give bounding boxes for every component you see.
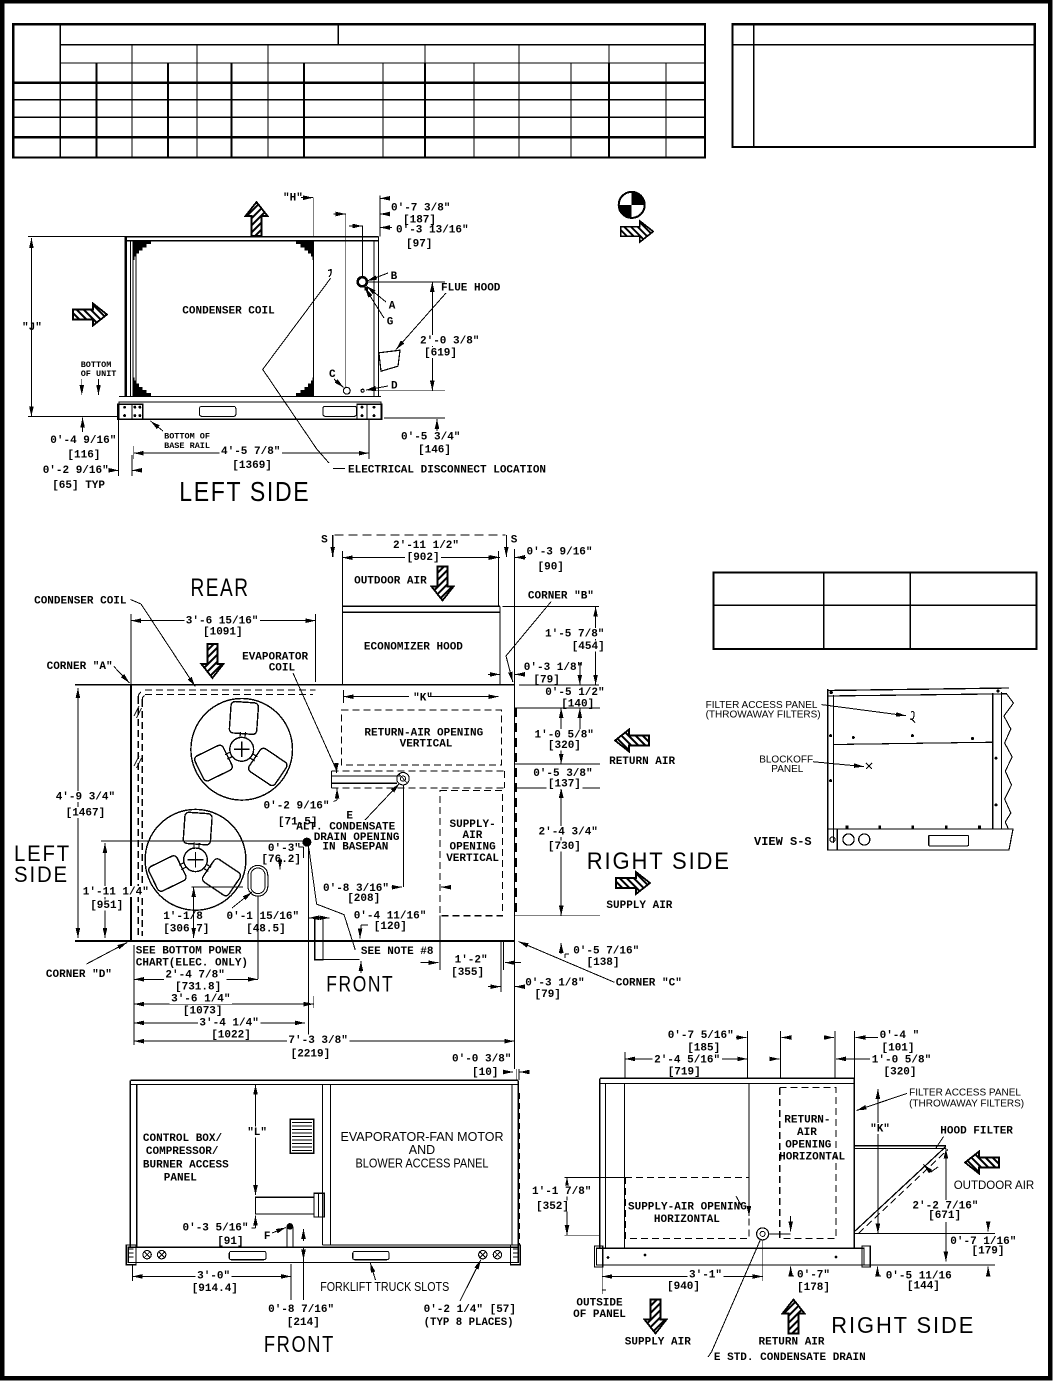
svg-text:1'-2″: 1'-2″	[455, 955, 488, 967]
flue hood shape	[379, 350, 400, 371]
supply-air opening horizontal (dashed)	[625, 1177, 749, 1238]
svg-text:[914.4]: [914.4]	[192, 1283, 238, 1295]
svg-text:"J": "J"	[22, 322, 42, 334]
svg-text:FRONT: FRONT	[264, 1331, 335, 1357]
dim 1'-1 7/8 [352] left	[566, 1177, 568, 1235]
svg-text:3'-4 1/4″: 3'-4 1/4″	[199, 1018, 258, 1030]
svg-text:1'-5 7/8″: 1'-5 7/8″	[545, 629, 604, 641]
view s-s corner screw dots	[830, 691, 832, 693]
svg-text:"K": "K"	[870, 1124, 890, 1136]
svg-text:RIGHT SIDE: RIGHT SIDE	[587, 848, 731, 875]
svg-text:"H": "H"	[283, 193, 303, 205]
base slot	[929, 835, 969, 845]
svg-text:[730]: [730]	[548, 841, 581, 853]
svg-text:CHART(ELEC. ONLY): CHART(ELEC. ONLY)	[136, 958, 248, 970]
svg-text:COIL: COIL	[269, 663, 296, 675]
svg-text:SEE NOTE #8: SEE NOTE #8	[361, 946, 434, 958]
svg-text:[1022]: [1022]	[211, 1030, 251, 1042]
svg-text:[144]: [144]	[907, 1281, 940, 1293]
leader E std condensate drain	[712, 1240, 761, 1353]
svg-text:0'-3 1/8″: 0'-3 1/8″	[524, 662, 583, 674]
hood bottom tick line	[855, 1232, 996, 1234]
svg-text:SUPPLY-AIR OPENING: SUPPLY-AIR OPENING	[628, 1202, 747, 1214]
return-air horizontal band (dashed)	[331, 770, 504, 772]
svg-text:0'-3 1/8″: 0'-3 1/8″	[525, 978, 584, 990]
evaporator coil slab (side projection)	[331, 775, 400, 777]
svg-text:(TYP 8 PLACES): (TYP 8 PLACES)	[424, 1317, 514, 1329]
note 8 zigzag leader	[309, 849, 355, 951]
svg-text:[120]: [120]	[374, 921, 407, 933]
condenser coil face lines	[132, 241, 134, 397]
svg-text:0'-4 9/16″: 0'-4 9/16″	[50, 435, 116, 447]
svg-text:OUTDOOR AIR: OUTDOOR AIR	[954, 1180, 1035, 1192]
plan: condenser coil dashed outline	[138, 690, 315, 700]
svg-text:[146]: [146]	[418, 445, 451, 457]
svg-text:[97]: [97]	[406, 239, 432, 251]
svg-text:SIDE: SIDE	[14, 862, 69, 887]
svg-text:2'-11 1/2″: 2'-11 1/2″	[393, 540, 459, 552]
svg-text:[140]: [140]	[561, 699, 594, 711]
hatched arrow down (rear)	[201, 644, 223, 678]
condensing fan 1	[191, 699, 293, 801]
svg-text:OF UNIT: OF UNIT	[81, 369, 117, 379]
gas connection duct	[256, 1197, 314, 1214]
svg-text:[1467]: [1467]	[66, 808, 106, 820]
hatched arrow left + label RETURN AIR	[615, 730, 649, 752]
accessory table (empty)	[714, 573, 1037, 650]
svg-text:0'-7 5/16″: 0'-7 5/16″	[668, 1030, 734, 1042]
hatched arrow right + label SUPPLY AIR	[616, 872, 650, 894]
svg-text:2'-0 3/8″: 2'-0 3/8″	[420, 336, 479, 348]
hinge dots left edge	[830, 735, 832, 737]
svg-text:HORIZONTAL: HORIZONTAL	[654, 1214, 720, 1226]
registration target mark	[619, 192, 645, 218]
svg-text:[116]: [116]	[67, 450, 100, 462]
front panel divider	[321, 1085, 323, 1246]
svg-text:[10]: [10]	[472, 1067, 498, 1079]
svg-text:CONTROL BOX/: CONTROL BOX/	[143, 1133, 223, 1145]
svg-text:CORNER "B": CORNER "B"	[528, 591, 594, 603]
rail bottom tick line right	[864, 1264, 995, 1266]
svg-text:AIR: AIR	[797, 1127, 817, 1139]
coil corner fin marks (black)	[134, 241, 157, 263]
svg-text:[208]: [208]	[347, 893, 380, 905]
svg-text:FORKLIFT TRUCK SLOTS: FORKLIFT TRUCK SLOTS	[320, 1280, 449, 1294]
svg-text:2'-4 5/16″: 2'-4 5/16″	[654, 1055, 720, 1067]
svg-text:BLOWER ACCESS PANEL: BLOWER ACCESS PANEL	[356, 1157, 489, 1171]
svg-text:1'-1/8: 1'-1/8	[163, 911, 203, 923]
dim 1'-11 1/4 [951]	[104, 843, 106, 938]
leader electrical disconnect	[263, 278, 331, 463]
hatched arrow left + OUTDOOR AIR (right side)	[965, 1152, 999, 1174]
svg-text:EVAPORATOR-FAN MOTOR: EVAPORATOR-FAN MOTOR	[341, 1130, 504, 1144]
front rail bolts	[143, 1251, 151, 1259]
svg-text:3'-6 15/16″: 3'-6 15/16″	[186, 616, 259, 628]
svg-text:VERTICAL: VERTICAL	[400, 739, 453, 751]
right side top dims	[624, 1052, 626, 1078]
svg-text:FRONT: FRONT	[326, 972, 394, 997]
svg-text:AND: AND	[409, 1143, 435, 1157]
svg-text:1'-0 5/8″: 1'-0 5/8″	[872, 1055, 931, 1067]
svg-text:0'-3 5/16″: 0'-3 5/16″	[183, 1223, 249, 1235]
svg-text:COMPRESSOR/: COMPRESSOR/	[146, 1146, 219, 1158]
svg-text:RETURN AIR: RETURN AIR	[759, 1337, 825, 1349]
svg-text:SUPPLY AIR: SUPPLY AIR	[625, 1337, 691, 1349]
dim 2'-4 3/4 [730]	[560, 788, 562, 916]
svg-text:BOTTOM OF: BOTTOM OF	[164, 432, 210, 442]
svg-text:SUPPLY AIR: SUPPLY AIR	[606, 900, 672, 912]
svg-text:0'-1 15/16″: 0'-1 15/16″	[227, 911, 300, 923]
filter access panel divider	[834, 742, 993, 744]
svg-text:0'-5 1/2″: 0'-5 1/2″	[545, 687, 604, 699]
svg-text:[185]: [185]	[687, 1043, 720, 1055]
right side tick lines from unit edge	[515, 707, 600, 709]
svg-text:[79]: [79]	[533, 675, 559, 687]
right side base rail	[597, 1248, 865, 1265]
VIEW S-S: panel outline	[828, 688, 1009, 691]
supply-air opening vertical (dashed)	[440, 791, 503, 916]
svg-text:[352]: [352]	[536, 1201, 569, 1213]
svg-text:0'-3 9/16″: 0'-3 9/16″	[527, 547, 593, 559]
svg-text:SEE BOTTOM POWER: SEE BOTTOM POWER	[136, 946, 242, 958]
svg-text:CORNER "A": CORNER "A"	[47, 661, 113, 673]
dim 2'-2 7/16 [671]	[945, 1149, 947, 1201]
svg-text:[719]: [719]	[668, 1067, 701, 1079]
svg-text:OF PANEL: OF PANEL	[573, 1309, 626, 1321]
svg-text:E STD. CONDENSATE DRAIN: E STD. CONDENSATE DRAIN	[714, 1352, 866, 1364]
svg-text:[1369]: [1369]	[232, 460, 272, 472]
base rail (left side view)	[119, 402, 381, 419]
svg-text:[320]: [320]	[548, 740, 581, 752]
svg-text:HORIZONTAL: HORIZONTAL	[779, 1152, 845, 1164]
hatched arrow up + RETURN AIR (right side)	[783, 1300, 805, 1334]
svg-text:A: A	[389, 301, 396, 313]
svg-text:1'-1 7/8″: 1'-1 7/8″	[532, 1186, 591, 1198]
svg-text:[902]: [902]	[407, 552, 440, 564]
forklift slot right	[323, 406, 357, 416]
svg-text:[306.7]: [306.7]	[163, 924, 209, 936]
svg-text:OUTSIDE: OUTSIDE	[576, 1298, 623, 1310]
svg-text:CORNER "D": CORNER "D"	[46, 969, 112, 981]
svg-text:D: D	[391, 381, 398, 393]
svg-text:S: S	[321, 535, 328, 547]
hatched arrow down (outdoor air into hood)	[432, 567, 454, 601]
front base rail	[128, 1247, 518, 1262]
svg-text:[178]: [178]	[797, 1282, 830, 1294]
svg-text:G: G	[387, 317, 394, 329]
svg-text:PANEL: PANEL	[164, 1173, 197, 1185]
small hatched arrow right (top)	[621, 221, 653, 242]
svg-text:[1091]: [1091]	[203, 627, 243, 639]
svg-text:[940]: [940]	[667, 1281, 700, 1293]
svg-text:[951]: [951]	[90, 900, 123, 912]
svg-text:[101]: [101]	[882, 1043, 915, 1055]
svg-text:OPENING: OPENING	[450, 842, 497, 854]
leader E to drain circle	[365, 784, 400, 821]
economizer dashed edge behind (front)	[519, 1093, 521, 1245]
svg-text:REAR: REAR	[191, 574, 250, 602]
svg-text:S: S	[511, 535, 518, 547]
front view: unit outline	[130, 1079, 518, 1081]
view s-s break line (wavy)	[1004, 693, 1014, 829]
svg-text:0'-7 3/8″: 0'-7 3/8″	[391, 203, 450, 215]
dim 1'-0 5/8 [320]	[560, 708, 562, 764]
svg-text:FLUE HOOD: FLUE HOOD	[441, 283, 501, 295]
dim 1'-5 7/8 [454]	[503, 606, 599, 608]
LEFT SIDE view: unit outline	[125, 236, 379, 238]
condensate drain dot (gas entry)	[303, 838, 311, 846]
dim 2'-0 3/8 [619]	[367, 281, 445, 283]
svg-text:"K": "K"	[413, 693, 433, 705]
svg-text:0'-2 1/4″ [57]: 0'-2 1/4″ [57]	[424, 1304, 516, 1316]
svg-text:[2219]: [2219]	[291, 1049, 331, 1061]
svg-text:B: B	[391, 271, 398, 283]
condensate drain stub below basepan	[315, 918, 323, 960]
svg-text:3'-0″: 3'-0″	[197, 1271, 230, 1283]
svg-text:4'-5 7/8″: 4'-5 7/8″	[221, 446, 280, 458]
svg-text:3'-1″: 3'-1″	[689, 1270, 722, 1282]
supply opening leader tick	[736, 1196, 742, 1206]
svg-text:VIEW S-S: VIEW S-S	[754, 835, 812, 849]
svg-text:[179]: [179]	[972, 1246, 1005, 1258]
right side view: unit outline	[600, 1077, 854, 1079]
svg-text:OUTDOOR AIR: OUTDOOR AIR	[354, 576, 427, 588]
dim K (right side)	[877, 1089, 879, 1234]
svg-text:CONDENSER COIL: CONDENSER COIL	[34, 596, 127, 608]
svg-text:0'-2 9/16″: 0'-2 9/16″	[43, 465, 109, 477]
svg-text:1'-11 1/4″: 1'-11 1/4″	[83, 887, 149, 899]
svg-text:[454]: [454]	[572, 641, 605, 653]
hood filter leader zigzag	[924, 1165, 939, 1173]
hatched arrow right (airflow into coil)	[73, 304, 107, 326]
svg-text:FILTER ACCESS PANEL: FILTER ACCESS PANEL	[909, 1088, 1021, 1099]
coil dashed tick marks	[134, 706, 139, 716]
svg-text:0'-5 3/4″: 0'-5 3/4″	[401, 432, 460, 444]
dimension texts overlay	[419, 335, 482, 346]
base dots	[846, 826, 849, 829]
base circles	[843, 834, 854, 845]
condensing fan 2	[145, 809, 246, 910]
svg-text:3'-6 1/4″: 3'-6 1/4″	[171, 994, 230, 1006]
return-air opening horizontal (dashed)	[780, 1087, 836, 1238]
flue outlet circle B/A/G	[358, 277, 367, 286]
svg-text:F: F	[264, 1231, 271, 1243]
outdoor-air hood (right side)	[855, 1145, 946, 1147]
hatched arrow down + SUPPLY AIR (right side)	[645, 1300, 667, 1334]
svg-text:RETURN-: RETURN-	[784, 1115, 830, 1127]
front forklift slots	[229, 1251, 266, 1259]
svg-text:LEFT SIDE: LEFT SIDE	[179, 476, 310, 507]
louver vent grille	[290, 1119, 314, 1153]
dim 4'-9 3/4 [1467]	[77, 688, 79, 938]
svg-text:AIR: AIR	[463, 830, 483, 842]
point D marker	[361, 389, 364, 392]
svg-text:[76.2]: [76.2]	[261, 854, 301, 866]
dim L vertical	[255, 1085, 257, 1196]
right side inner panel seam	[623, 1083, 625, 1248]
svg-text:PANEL: PANEL	[771, 764, 803, 775]
svg-text:HOOD FILTER: HOOD FILTER	[940, 1126, 1013, 1138]
economizer hood	[343, 605, 500, 607]
svg-text:0'-7″: 0'-7″	[797, 1270, 830, 1282]
svg-text:ELECTRICAL DISCONNECT LOCATION: ELECTRICAL DISCONNECT LOCATION	[348, 465, 546, 477]
svg-text:0'-2 9/16″: 0'-2 9/16″	[264, 801, 330, 813]
svg-text:ECONOMIZER HOOD: ECONOMIZER HOOD	[364, 642, 463, 654]
unit dimensions table (empty)	[13, 24, 705, 157]
return-air opening vertical (dashed)	[342, 710, 502, 765]
svg-text:CORNER "C": CORNER "C"	[616, 978, 682, 990]
alt condensate drain circle	[397, 773, 409, 785]
point C circle	[343, 387, 350, 394]
svg-text:[1073]: [1073]	[183, 1006, 223, 1018]
svg-text:[79]: [79]	[535, 989, 561, 1001]
svg-text:0'-5 7/16″: 0'-5 7/16″	[573, 946, 639, 958]
svg-text:0'-0 3/8″: 0'-0 3/8″	[452, 1054, 511, 1066]
latch symbol on coil panel	[328, 270, 332, 277]
svg-text:(THROWAWAY FILTERS): (THROWAWAY FILTERS)	[706, 710, 821, 721]
svg-text:RETURN AIR: RETURN AIR	[609, 756, 675, 768]
svg-text:[65] TYP: [65] TYP	[52, 480, 105, 492]
svg-text:IN BASEPAN: IN BASEPAN	[322, 842, 388, 854]
svg-text:"L": "L"	[247, 1127, 267, 1139]
svg-text:RIGHT SIDE: RIGHT SIDE	[831, 1312, 975, 1338]
svg-text:[355]: [355]	[451, 967, 484, 979]
svg-text:[137]: [137]	[548, 779, 581, 791]
title block box (empty)	[733, 24, 1035, 147]
right side seam 2 with arrow	[748, 1083, 750, 1216]
svg-text:[90]: [90]	[538, 562, 564, 574]
svg-text:[138]: [138]	[587, 957, 620, 969]
svg-text:0'-4 ″: 0'-4 ″	[880, 1030, 920, 1042]
svg-text:[91]: [91]	[217, 1236, 243, 1248]
svg-text:4'-9 3/4″: 4'-9 3/4″	[56, 792, 115, 804]
svg-text:[619]: [619]	[424, 348, 457, 360]
heavy dashed line unit right (openings plane)	[514, 708, 517, 916]
svg-text:[320]: [320]	[884, 1067, 917, 1079]
svg-text:7'-3 3/8″: 7'-3 3/8″	[288, 1035, 347, 1047]
svg-text:[671]: [671]	[928, 1210, 961, 1222]
svg-text:[731.8]: [731.8]	[175, 982, 221, 994]
svg-text:2'-4 3/4″: 2'-4 3/4″	[539, 827, 598, 839]
svg-text:OPENING: OPENING	[785, 1140, 832, 1152]
svg-text:[48.5]: [48.5]	[246, 924, 286, 936]
svg-text:(THROWAWAY FILTERS): (THROWAWAY FILTERS)	[909, 1099, 1024, 1110]
forklift slot left	[200, 406, 236, 416]
condensate obround	[248, 865, 268, 896]
svg-text:0'-3 13/16″: 0'-3 13/16″	[396, 225, 469, 237]
svg-text:BASE RAIL: BASE RAIL	[164, 441, 210, 451]
view s-s base channel	[828, 829, 1013, 850]
svg-text:VERTICAL: VERTICAL	[446, 853, 499, 865]
svg-text:CONDENSER COIL: CONDENSER COIL	[182, 306, 275, 318]
svg-text:[214]: [214]	[287, 1317, 320, 1329]
std condensate drain circle	[757, 1228, 769, 1240]
plan view: unit outline	[75, 684, 515, 686]
svg-text:BURNER ACCESS: BURNER ACCESS	[143, 1160, 229, 1172]
hatched arrow up (top of left side view)	[246, 202, 268, 236]
svg-text:2'-4 7/8″: 2'-4 7/8″	[165, 970, 224, 982]
svg-text:0'-8 7/16″: 0'-8 7/16″	[268, 1304, 334, 1316]
